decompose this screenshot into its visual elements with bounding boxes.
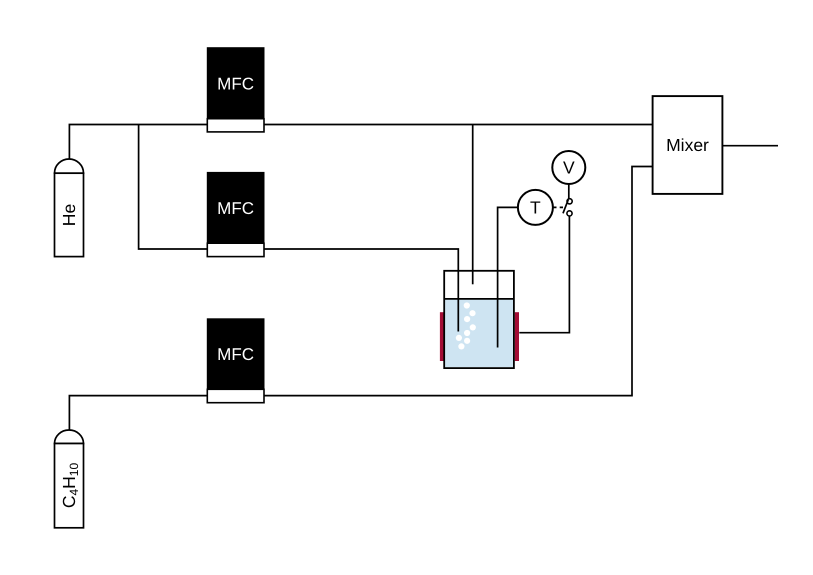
svg-text:Mixer: Mixer xyxy=(666,135,709,155)
svg-text:He: He xyxy=(59,204,79,226)
svg-text:T: T xyxy=(530,198,541,218)
svg-text:V: V xyxy=(563,158,575,178)
svg-text:MFC: MFC xyxy=(217,345,254,364)
svg-text:MFC: MFC xyxy=(217,199,254,218)
svg-text:MFC: MFC xyxy=(217,74,254,93)
